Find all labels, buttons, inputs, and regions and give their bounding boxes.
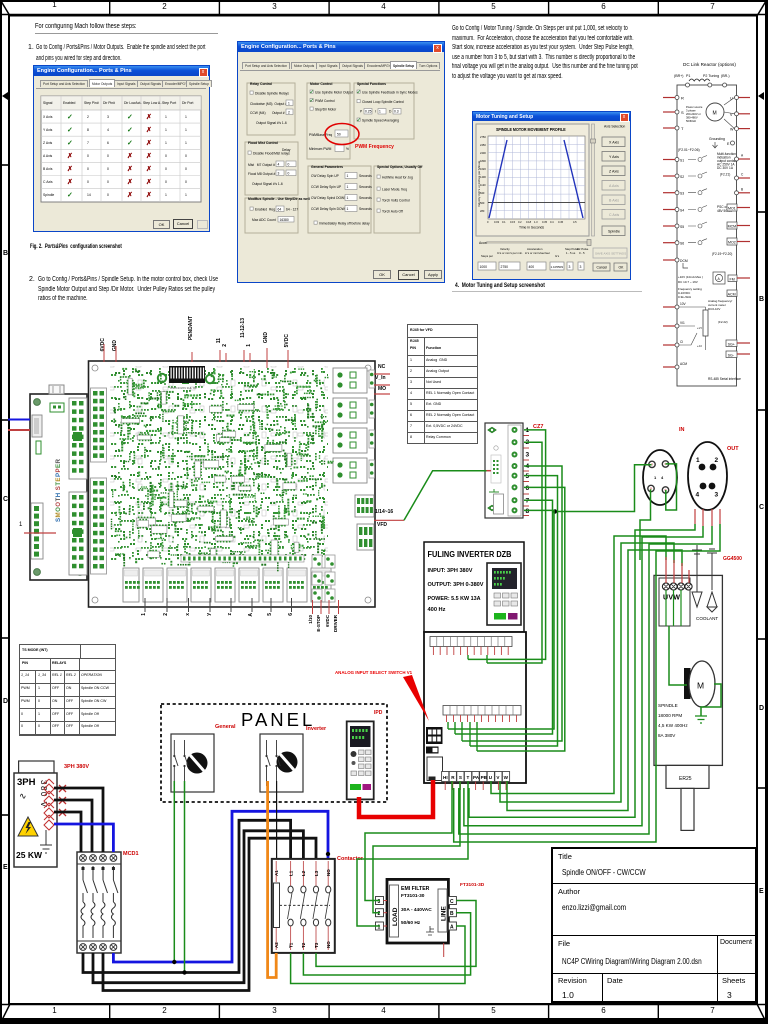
Smooth Stepper board — [30, 385, 87, 580]
pin header J-top — [169, 366, 205, 390]
fuse X marks — [59, 785, 66, 816]
3PH 380V source — [14, 761, 57, 867]
spindle text — [658, 703, 688, 738]
analog select terminal block — [426, 727, 443, 744]
EMI terminals right — [448, 897, 456, 931]
dip toggle — [426, 747, 439, 754]
TOPLEFT TEXT — [0, 0, 768, 1]
motor tuning dialog — [472, 111, 631, 280]
row letters right band — [759, 296, 764, 303]
wire CZ7 pin4 — [462, 466, 562, 741]
V1 connector — [427, 757, 443, 781]
red annotation arrow — [403, 675, 429, 721]
Fuling inverter title box — [424, 542, 524, 632]
wire CZ7 pin1 to VFD strip — [468, 430, 546, 660]
bottom labels — [481, 247, 589, 258]
wire inverter switch to coil A1 — [276, 781, 278, 858]
wire CZ7 pin8 — [448, 510, 554, 729]
breaker MCD1 — [77, 852, 121, 953]
SS board stubs — [8, 419, 30, 421]
SS right connector bottom — [69, 492, 87, 575]
thick red cable keypad to V1 — [359, 780, 433, 817]
wire general switch green 2 — [184, 781, 186, 973]
contactor — [272, 859, 335, 953]
wire mains neutral blue — [54, 824, 113, 852]
wire UVW box to motor — [669, 626, 687, 685]
wire breaker to contactor L2 — [93, 831, 303, 983]
S1..S6 input terminals — [663, 156, 707, 246]
SMD component field — [111, 368, 334, 571]
wire CZ7 pin7 — [455, 500, 553, 734]
CZ7 pin numbers — [526, 427, 530, 515]
red stubs spindle UVW — [666, 557, 689, 583]
row letters left band — [3, 250, 8, 257]
PARAGRAPH + MOTOR TUNING — [0, 0, 768, 1]
right terminals U V W — [724, 96, 750, 132]
modbus — [250, 206, 298, 222]
DIALOG1 — [33, 65, 210, 232]
wire IN pin bottom — [640, 489, 651, 560]
CZ7 connector board — [485, 423, 523, 518]
column numbers top — [0, 0, 109, 9]
wire breaker to contactor L1 — [83, 820, 291, 972]
side band ticks left — [1, 164, 9, 166]
wire inverter W to spindle W — [507, 550, 682, 811]
motor circle — [706, 103, 724, 121]
wire mains phase3 — [54, 812, 81, 852]
SS small part — [36, 441, 41, 454]
wire mains phase2 — [54, 800, 92, 852]
PCB label stub wires — [104, 344, 288, 368]
PCB right labels — [378, 364, 385, 370]
bottom ruler band — [0, 1004, 768, 1006]
side band ticks right — [757, 211, 765, 213]
IPD keypad — [347, 721, 374, 799]
signals grid — [41, 96, 201, 202]
wire PCB VFD to CZ7 — [404, 471, 487, 521]
wire inverter V to spindle V — [500, 543, 674, 802]
SS right connector top — [69, 398, 87, 479]
mount ring L — [158, 374, 166, 382]
DC LINK CIRCUIT — [0, 0, 768, 1]
warning triangle — [18, 817, 38, 836]
wire breaker to contactor blue — [113, 811, 328, 962]
junction dot CZ7 pin8 — [553, 509, 557, 513]
junction dot blue at contactor NO — [326, 852, 330, 856]
SS left connector small — [32, 415, 42, 437]
PCB right labels stubs — [374, 374, 404, 520]
corner diagonals — [1, 1, 10, 16]
EMI red stub bottom — [443, 943, 445, 957]
ER25 chuck — [666, 765, 709, 788]
right outputs A C B — [717, 152, 750, 195]
wire aux2 to OUT pin2 — [464, 526, 703, 826]
PCB main board — [89, 361, 376, 607]
wire general switch green 1 — [173, 781, 175, 962]
EMI terminals left — [376, 897, 388, 931]
wire inverter switch orange to coil A2 — [268, 781, 277, 978]
motor control — [309, 90, 353, 152]
connector VFD right — [355, 495, 374, 517]
trapezoid profile — [489, 140, 507, 218]
spindle outer box — [654, 575, 722, 765]
FRAME — [0, 0, 768, 1]
wire aux4 to OUT pin4 — [454, 524, 720, 842]
WIRES AND BOTTOM COMPONENTS — [0, 0, 768, 1]
terminal blocks right edge — [369, 370, 375, 478]
wire IN pin left — [555, 465, 652, 512]
PCB bottom labels — [141, 613, 147, 616]
mount ring R — [206, 375, 214, 383]
switch General — [171, 734, 214, 792]
bottom-right terminal cluster — [312, 555, 335, 602]
wire aux3 to OUT pin3 — [459, 526, 712, 834]
top ruler band — [0, 14, 768, 16]
chart panel — [476, 124, 589, 236]
wire UVW internal drops — [666, 590, 681, 626]
special options — [377, 175, 413, 214]
inverter keypad — [487, 563, 521, 625]
red tick CZ7 left — [487, 470, 492, 472]
wire contactor T1 to EMI A — [291, 926, 465, 984]
relay bank right — [333, 368, 367, 483]
DCM — [675, 258, 679, 262]
connector CN-left1 — [91, 388, 107, 462]
spindle shaft — [681, 788, 694, 830]
wire inverter R to EMI load 3 — [365, 781, 452, 901]
fuse F1 — [44, 779, 54, 794]
potentiometer — [703, 310, 708, 336]
IN connector — [643, 450, 677, 505]
TS MODE relay table — [19, 644, 116, 736]
wire inverter S to EMI load 2 — [373, 781, 460, 913]
strip2 jumper wires — [448, 722, 477, 751]
terminal strip 1 — [430, 637, 512, 656]
PANEL dashed box — [161, 704, 387, 802]
red ellipse annotation — [325, 124, 359, 145]
wire contactor T2 to EMI B — [303, 913, 470, 975]
wire aux1 to OUT pin1 — [469, 524, 695, 817]
PCB left label — [19, 522, 22, 528]
strip1 jumper wires — [468, 655, 487, 663]
vertical slider — [592, 124, 595, 236]
TABLES — [0, 0, 768, 1]
terminal strip 2 — [443, 706, 521, 723]
wire contactor T3 to EMI C — [316, 901, 476, 967]
left terminals R S T — [663, 96, 684, 132]
analog section — [678, 275, 703, 299]
bottom terminal row RSTUVW — [442, 772, 510, 791]
wire CZ7 pin6 — [477, 487, 565, 751]
SS left-bottom connector — [31, 503, 43, 559]
wire inverter T to EMI load 1 — [357, 781, 468, 926]
wire IN pin right loop — [666, 464, 677, 510]
PCB bottom tick stubs — [145, 598, 292, 612]
band arrows — [2, 92, 8, 100]
wire inverter U to spindle U — [491, 536, 666, 794]
motor ground bars — [695, 716, 707, 723]
pin strip mid — [181, 555, 304, 562]
RJ45 for VFD pin table — [407, 324, 478, 444]
TITLE BLOCK — [551, 847, 757, 1003]
wire breaker to contactor L3 — [103, 838, 316, 990]
special functions — [357, 90, 418, 124]
UVW terminal box — [659, 578, 692, 626]
red stubs below OUT — [695, 509, 720, 526]
DIALOG2 — [237, 41, 445, 283]
wire motor ground — [701, 684, 721, 716]
relay control — [250, 91, 293, 125]
reactor coil — [689, 79, 710, 81]
wire CZ7 pin2 — [487, 442, 542, 663]
fuse F2 — [44, 791, 54, 806]
fuse F3 — [44, 803, 54, 818]
fuse F4 — [44, 815, 54, 830]
spindle motor — [684, 661, 715, 707]
EMI filter — [387, 879, 448, 943]
main box — [677, 85, 737, 386]
column numbers bottom — [0, 1006, 109, 1015]
general parameters — [311, 173, 372, 226]
FM meter — [713, 272, 725, 284]
inverter body — [424, 632, 526, 783]
connector right low — [357, 524, 374, 550]
coolant funnels — [692, 545, 717, 612]
bottom axis connectors — [123, 568, 331, 602]
switch Inverter — [260, 734, 303, 792]
axis buttons — [602, 137, 625, 236]
source ground — [40, 830, 52, 853]
PCB top labels — [100, 338, 106, 351]
wire mains phase1 — [54, 788, 103, 852]
PCB — [0, 0, 768, 1]
wire CZ7 pin5 — [470, 476, 558, 746]
outer border lines — [0, 0, 768, 2]
junction dot black/green — [182, 970, 186, 974]
connector CN-left2 — [91, 478, 107, 574]
junction dot blue/green — [172, 960, 176, 964]
breaker poles — [81, 866, 118, 938]
flood mist — [248, 148, 296, 186]
OUT connector — [688, 442, 727, 510]
